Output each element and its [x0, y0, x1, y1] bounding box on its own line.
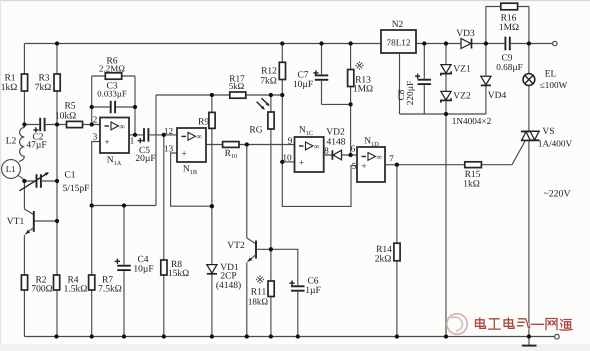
svg-text:10µF: 10µF: [133, 264, 153, 274]
svg-text:10: 10: [282, 154, 292, 164]
svg-text:∞: ∞: [196, 132, 202, 141]
svg-text:78L12: 78L12: [387, 37, 411, 47]
svg-text:1MΩ: 1MΩ: [353, 84, 373, 94]
svg-text:3: 3: [93, 133, 98, 143]
svg-text:10kΩ: 10kΩ: [55, 111, 76, 121]
svg-text:1µF: 1µF: [305, 286, 321, 296]
svg-text:~220V: ~220V: [543, 189, 570, 200]
svg-text:VT1: VT1: [7, 217, 25, 227]
svg-text:2kΩ: 2kΩ: [375, 254, 392, 264]
svg-text:4148: 4148: [327, 137, 346, 147]
svg-text:VZ1: VZ1: [453, 65, 471, 75]
svg-text:2: 2: [93, 116, 98, 126]
svg-text:13: 13: [164, 145, 174, 155]
svg-text:∞: ∞: [314, 142, 320, 151]
svg-text:7.5kΩ: 7.5kΩ: [98, 285, 122, 295]
svg-text:7kΩ: 7kΩ: [35, 83, 52, 93]
svg-text:47µF: 47µF: [26, 141, 46, 151]
svg-text:R12: R12: [261, 67, 277, 77]
svg-text:R3: R3: [38, 74, 49, 84]
svg-text:5/15pF: 5/15pF: [63, 184, 90, 194]
svg-text:∞: ∞: [376, 152, 382, 161]
svg-text:R15: R15: [465, 170, 481, 180]
svg-text:10µF: 10µF: [293, 80, 313, 90]
svg-text:∞: ∞: [119, 122, 125, 131]
svg-text:VD3: VD3: [456, 29, 475, 39]
svg-text:R14: R14: [376, 245, 392, 255]
svg-text:+: +: [181, 150, 186, 160]
svg-text:VS: VS: [542, 127, 554, 137]
svg-text:700Ω: 700Ω: [31, 285, 52, 295]
svg-text:1.5kΩ: 1.5kΩ: [64, 285, 88, 295]
svg-text:1kΩ: 1kΩ: [463, 179, 480, 189]
svg-text:15kΩ: 15kΩ: [168, 269, 189, 279]
svg-text:+: +: [361, 162, 366, 172]
svg-text:1N4004×2: 1N4004×2: [452, 116, 492, 126]
svg-text:C1: C1: [64, 171, 75, 181]
svg-text:1kΩ: 1kΩ: [1, 83, 18, 93]
svg-text:5kΩ: 5kΩ: [229, 81, 245, 91]
svg-text:N2: N2: [392, 20, 404, 30]
svg-text:L2: L2: [6, 136, 17, 146]
svg-text:9: 9: [288, 136, 293, 146]
svg-text:EL: EL: [545, 70, 557, 80]
svg-text:VD2: VD2: [326, 128, 345, 138]
svg-text:R9: R9: [198, 118, 209, 128]
svg-text:≤100W: ≤100W: [540, 80, 568, 90]
svg-text:+: +: [299, 159, 304, 169]
svg-text:R5: R5: [64, 101, 75, 111]
svg-text:VT2: VT2: [227, 241, 245, 251]
svg-text:1: 1: [130, 137, 135, 147]
svg-text:VD4: VD4: [488, 91, 507, 101]
svg-text:6: 6: [351, 144, 356, 154]
svg-text:18kΩ: 18kΩ: [248, 296, 269, 306]
svg-text:1A/400V: 1A/400V: [538, 139, 573, 149]
svg-text:8: 8: [324, 147, 329, 157]
svg-text:12: 12: [164, 127, 174, 137]
svg-text:(4148): (4148): [216, 281, 241, 291]
svg-text:5: 5: [352, 162, 357, 172]
svg-text:RG: RG: [249, 126, 262, 136]
svg-text:20µF: 20µF: [135, 154, 155, 164]
svg-text:1MΩ: 1MΩ: [499, 23, 519, 33]
svg-text:VZ2: VZ2: [453, 92, 471, 102]
svg-text:2.2MΩ: 2.2MΩ: [99, 64, 125, 74]
svg-text:+: +: [104, 138, 109, 148]
svg-text:R1: R1: [4, 74, 15, 84]
svg-text:220µF: 220µF: [406, 81, 416, 105]
svg-text:C7: C7: [297, 70, 308, 80]
svg-text:7kΩ: 7kΩ: [260, 77, 277, 87]
svg-text:0.68µF: 0.68µF: [496, 62, 522, 72]
svg-text:7: 7: [389, 155, 394, 165]
svg-text:0.033µF: 0.033µF: [97, 88, 127, 98]
svg-text:L1: L1: [6, 164, 16, 174]
